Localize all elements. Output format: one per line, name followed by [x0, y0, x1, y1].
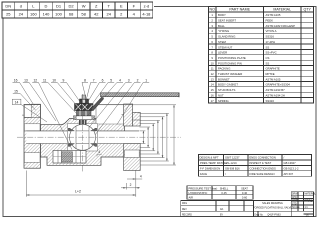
svg-text:42: 42: [94, 12, 99, 17]
svg-text:D1: D1: [56, 4, 62, 9]
label 14: [12, 99, 47, 122]
seat insert right visible part: [91, 128, 97, 146]
svg-text:PEEK: PEEK: [266, 19, 274, 23]
svg-text:SS+PVC: SS+PVC: [266, 51, 277, 55]
horizontal centerline: [17, 136, 181, 138]
svg-text:STEM NUT: STEM NUT: [218, 45, 233, 49]
svg-text:24: 24: [19, 12, 24, 17]
svg-text:MATERIAL: MATERIAL: [305, 193, 317, 196]
right fan labels 8..1: [82, 78, 88, 98]
svg-text:SHELL: SHELL: [220, 187, 229, 191]
svg-text:POSITIONING PIN: POSITIONING PIN: [218, 61, 242, 65]
stem boss / gland flange: [74, 116, 95, 120]
svg-text:14: 14: [15, 100, 19, 104]
svg-text:LEVER: LEVER: [218, 51, 227, 55]
svg-text:Q41F-PN63: Q41F-PN63: [267, 214, 281, 217]
bottom dimension L+2: [26, 171, 136, 197]
svg-text:1: 1: [145, 78, 147, 82]
svg-text:APPR: APPR: [292, 199, 299, 202]
svg-text:API 607: API 607: [284, 172, 294, 176]
top fan labels 13..9: [23, 78, 56, 121]
svg-text:E: E: [120, 4, 123, 9]
svg-text:Dwg No.: Dwg No.: [255, 214, 264, 216]
svg-text:2: 2: [137, 78, 139, 82]
svg-text:10: 10: [211, 61, 215, 65]
svg-text:CS: CS: [266, 56, 270, 60]
svg-text:HYDROSTATIC: HYDROSTATIC: [189, 191, 208, 195]
svg-text:3: 3: [128, 78, 130, 82]
svg-text:REV: REV: [182, 209, 187, 211]
svg-text:d: d: [20, 4, 22, 9]
svg-text:PACKING: PACKING: [218, 67, 230, 71]
svg-text:ASTM A105: ASTM A105: [266, 13, 281, 17]
left flange: [24, 105, 40, 169]
flow bore (white band): [26, 131, 139, 144]
svg-text:FIRE SAFE DESIGN: FIRE SAFE DESIGN: [250, 172, 275, 176]
svg-text:100: 100: [55, 12, 62, 17]
packing gland (items 4/5/11 zone): [77, 111, 92, 116]
svg-text:GLAND RING: GLAND RING: [218, 35, 235, 39]
svg-text:140: 140: [43, 12, 50, 17]
pressure test table: [187, 186, 253, 200]
seat insert left (item 2): [69, 129, 75, 147]
svg-text:16: 16: [211, 93, 215, 97]
svg-text:GB 908 B16: GB 908 B16: [225, 167, 240, 171]
svg-text:VITON A: VITON A: [266, 29, 277, 33]
svg-text:6: 6: [102, 78, 104, 82]
svg-text:DN: DN: [5, 4, 11, 9]
svg-text:MFG: MFG: [182, 203, 187, 205]
right nested diameter dimensions: [96, 105, 176, 165]
ball (item 3): [70, 124, 96, 150]
svg-text:CHK: CHK: [292, 197, 297, 199]
svg-text:2: 2: [130, 183, 132, 187]
lever neck (item 8 hub): [91, 97, 104, 111]
svg-text:INSPECT & TEST: INSPECT & TEST: [250, 161, 272, 165]
svg-text:"O"RING: "O"RING: [218, 29, 229, 33]
svg-text:D: D: [45, 4, 48, 9]
seat insert right: [91, 129, 97, 147]
svg-text:RPTFE: RPTFE: [266, 72, 275, 76]
overall height dim: [96, 105, 176, 165]
label 15: [13, 89, 36, 110]
svg-text:7: 7: [93, 78, 95, 82]
svg-text:SEAT INSERT: SEAT INSERT: [218, 19, 236, 23]
dimension table top-left: [2, 2, 153, 18]
svg-text:0.45: 0.45: [221, 191, 227, 195]
svg-text:STUD BOLTS: STUD BOLTS: [218, 88, 235, 92]
valve drawing: [12, 78, 181, 196]
svg-text:NUT: NUT: [218, 93, 224, 97]
seat spring detail (item 17, bottom): [53, 151, 86, 164]
svg-text:17: 17: [211, 99, 215, 103]
svg-text:SS316: SS316: [266, 99, 275, 103]
svg-text:58: 58: [81, 12, 86, 17]
svg-text:12: 12: [211, 72, 215, 76]
svg-text:GB 13927: GB 13927: [284, 161, 297, 165]
svg-text:F-F DIMENSION: F-F DIMENSION: [200, 167, 220, 171]
svg-text:MATERIAL: MATERIAL: [273, 8, 291, 12]
svg-text:68: 68: [69, 12, 74, 17]
svg-text:-29~121C: -29~121C: [225, 161, 237, 165]
svg-text:15: 15: [211, 88, 215, 92]
svg-text:SEAT: SEAT: [241, 187, 248, 191]
svg-text:0.60: 0.60: [242, 196, 248, 200]
svg-text:SALES DRAWING: SALES DRAWING: [262, 202, 283, 205]
svg-text:SS: SS: [266, 61, 270, 65]
svg-text:17-4PH: 17-4PH: [266, 40, 275, 44]
svg-text:13: 13: [211, 77, 215, 81]
svg-text:PART NAME: PART NAME: [229, 8, 250, 12]
svg-text:ASTM A193 B7: ASTM A193 B7: [266, 88, 286, 92]
bonnet recess (white pocket right of stem): [96, 105, 125, 125]
svg-text:4: 4: [119, 78, 121, 82]
svg-text:BONNET: BONNET: [218, 77, 230, 81]
svg-text:12: 12: [33, 78, 37, 82]
title block: [181, 192, 317, 218]
svg-text:16: 16: [14, 78, 18, 82]
stem blade into ball slot (thrust washer item 12 zone): [79, 120, 86, 127]
svg-text:RECORD: RECORD: [182, 214, 192, 216]
svg-text:THRUST WASHER: THRUST WASHER: [218, 72, 242, 76]
svg-text:ASTM A182 F304+ENP: ASTM A182 F304+ENP: [266, 24, 296, 28]
svg-text:BODY GASKET: BODY GASKET: [218, 83, 238, 87]
svg-text:160: 160: [30, 12, 37, 17]
stem nut / positioning plate (items 7/9, dark blob): [75, 104, 94, 111]
standards table: [199, 155, 312, 177]
stem tip: [82, 95, 86, 99]
svg-text:L+2: L+2: [75, 190, 81, 194]
svg-text:FORGED FLOATING BALL VALVE: FORGED FLOATING BALL VALVE: [253, 206, 292, 209]
svg-text:24: 24: [106, 12, 111, 17]
svg-text:DRW: DRW: [292, 194, 298, 196]
svg-text:z-d: z-d: [144, 4, 150, 9]
svg-text:D2: D2: [69, 4, 75, 9]
svg-text:WT(Kg): WT(Kg): [305, 200, 313, 202]
vertical centerline: [82, 94, 84, 172]
svg-text:NO: NO: [210, 8, 216, 12]
svg-text:BY: BY: [220, 214, 224, 216]
svg-text:STEM: STEM: [218, 40, 226, 44]
svg-text:SCALE: SCALE: [292, 206, 300, 209]
svg-text:GRAPHITE: GRAPHITE: [266, 67, 280, 71]
small dim 2: [121, 183, 140, 190]
parts list table top-right: [209, 7, 314, 103]
svg-text:0.40: 0.40: [242, 191, 248, 195]
svg-text:DESIGN & MFT: DESIGN & MFT: [200, 156, 219, 160]
svg-text:15: 15: [14, 89, 18, 93]
small dim 4 (raised face): [127, 175, 142, 180]
svg-text:STD: STD: [292, 204, 297, 206]
svg-text:PRES-TEMP. RATING: PRES-TEMP. RATING: [200, 161, 227, 165]
svg-text:AIR: AIR: [189, 196, 194, 200]
svg-text:10: 10: [52, 78, 56, 82]
seat insert left visible part: [68, 128, 74, 146]
svg-text:GRAPHITE+SS304: GRAPHITE+SS304: [266, 83, 291, 87]
leader labels left column: 16: [12, 78, 149, 149]
svg-text:8: 8: [84, 78, 86, 82]
svg-text:9: 9: [62, 78, 64, 82]
svg-text:BODY: BODY: [218, 13, 226, 17]
right flange: [124, 104, 141, 171]
svg-text:GB 9113.1-2: GB 9113.1-2: [284, 167, 300, 171]
svg-text:13: 13: [24, 78, 28, 82]
svg-text:SS316: SS316: [266, 35, 275, 39]
svg-text:PRESSURE TEST (bar): PRESSURE TEST (bar): [189, 186, 218, 190]
svg-text:SPRING: SPRING: [218, 99, 229, 103]
svg-text:11: 11: [211, 67, 214, 71]
svg-text:4: 4: [140, 175, 142, 179]
svg-text:4: 4: [98, 150, 100, 154]
svg-text:GB/T 12237: GB/T 12237: [225, 156, 240, 160]
svg-text:CONNECTION ENDS: CONNECTION ENDS: [250, 167, 276, 171]
stud bolts block (items 15/16 area, left flange top): [22, 104, 40, 117]
svg-text:5: 5: [110, 78, 112, 82]
svg-text:ASTM A194 2H: ASTM A194 2H: [266, 93, 285, 97]
svg-text:QTY: QTY: [304, 8, 312, 12]
svg-text:ENDS CONNECTION: ENDS CONNECTION: [250, 156, 276, 160]
svg-text:4-18: 4-18: [142, 12, 151, 17]
ball cavity in body: [68, 124, 98, 152]
svg-text:ASTM A105: ASTM A105: [266, 77, 281, 81]
svg-text:SS: SS: [266, 45, 270, 49]
stem hex nut (item 7 top): [80, 99, 89, 104]
body (hatched section): [40, 119, 124, 166]
svg-text:11: 11: [43, 78, 47, 82]
svg-text:BALL: BALL: [218, 24, 225, 28]
svg-text:FACE: FACE: [200, 172, 207, 176]
svg-text:25: 25: [6, 12, 11, 17]
weld mark 4: [97, 150, 102, 156]
svg-text:14: 14: [211, 83, 215, 87]
svg-text:W: W: [82, 4, 86, 9]
lever bar (item 8): [101, 93, 180, 98]
svg-text:POSITIONING PLATE: POSITIONING PLATE: [218, 56, 246, 60]
